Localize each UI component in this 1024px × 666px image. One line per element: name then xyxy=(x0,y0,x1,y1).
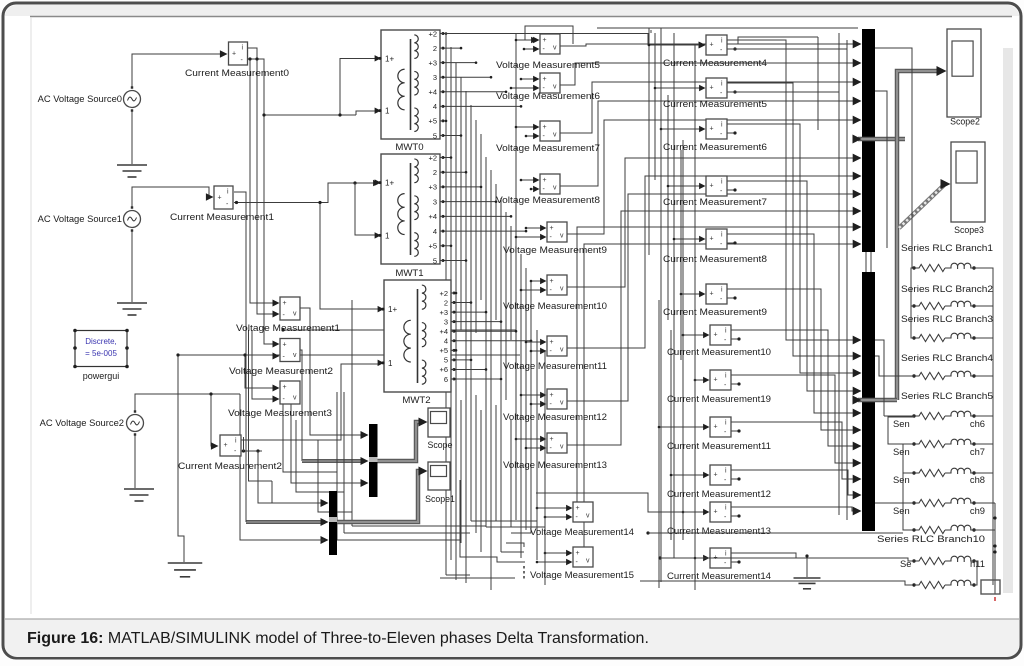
svg-text:Series RLC Branch10: Series RLC Branch10 xyxy=(877,533,985,544)
svg-text:+3: +3 xyxy=(428,183,437,192)
svg-text:Current Measurement5: Current Measurement5 xyxy=(663,98,767,109)
svg-text:3: 3 xyxy=(444,317,448,326)
svg-text:Sen: Sen xyxy=(893,505,910,516)
svg-text:2: 2 xyxy=(433,168,437,177)
svg-text:Voltage Measurement7: Voltage Measurement7 xyxy=(496,142,600,153)
svg-text:+3: +3 xyxy=(428,58,437,67)
svg-text:+: + xyxy=(283,342,287,349)
svg-text:2: 2 xyxy=(433,44,437,53)
svg-text:Current Measurement0: Current Measurement0 xyxy=(185,67,289,78)
svg-text:Voltage Measurement3: Voltage Measurement3 xyxy=(228,407,332,418)
svg-text:+5: +5 xyxy=(428,117,437,126)
svg-text:Current Measurement10: Current Measurement10 xyxy=(667,346,771,357)
svg-text:+: + xyxy=(543,177,547,184)
svg-text:Sen: Sen xyxy=(893,418,910,429)
svg-text:4: 4 xyxy=(433,227,437,236)
svg-text:+: + xyxy=(710,126,714,133)
svg-text:v: v xyxy=(560,233,564,240)
svg-text:Sen: Sen xyxy=(893,446,910,457)
svg-text:+: + xyxy=(218,194,222,201)
svg-text:Voltage Measurement10: Voltage Measurement10 xyxy=(503,300,607,311)
svg-text:Voltage Measurement12: Voltage Measurement12 xyxy=(503,411,607,422)
svg-text:Series RLC Branch4: Series RLC Branch4 xyxy=(901,352,993,363)
svg-text:v: v xyxy=(293,311,297,318)
svg-text:Sen: Sen xyxy=(893,474,910,485)
svg-text:+: + xyxy=(550,278,554,285)
svg-text:6: 6 xyxy=(444,375,448,384)
svg-text:ch9: ch9 xyxy=(970,505,985,516)
svg-text:+: + xyxy=(550,339,554,346)
svg-text:+: + xyxy=(550,225,554,232)
svg-text:Discrete,: Discrete, xyxy=(85,337,117,346)
svg-text:v: v xyxy=(553,185,557,192)
svg-text:+: + xyxy=(710,236,714,243)
svg-text:+: + xyxy=(550,392,554,399)
svg-text:Voltage Measurement5: Voltage Measurement5 xyxy=(496,59,600,70)
svg-text:+4: +4 xyxy=(428,212,437,221)
svg-text:Current Measurement8: Current Measurement8 xyxy=(663,253,767,264)
svg-text:AC Voltage Source2: AC Voltage Source2 xyxy=(40,417,124,428)
svg-text:Current Measurement4: Current Measurement4 xyxy=(663,57,767,68)
svg-text:1: 1 xyxy=(385,231,390,240)
svg-text:AC Voltage Source1: AC Voltage Source1 xyxy=(38,213,122,224)
svg-text:+: + xyxy=(714,377,718,384)
svg-text:+6: +6 xyxy=(439,365,448,374)
svg-text:Voltage Measurement9: Voltage Measurement9 xyxy=(503,244,607,255)
svg-text:Figure 16: MATLAB/SIMULINK mod: Figure 16: MATLAB/SIMULINK model of Thre… xyxy=(27,630,649,647)
svg-text:ch6: ch6 xyxy=(970,418,985,429)
svg-text:+2: +2 xyxy=(428,153,437,162)
svg-text:1+: 1+ xyxy=(385,179,394,188)
svg-text:+: + xyxy=(714,424,718,431)
svg-text:5: 5 xyxy=(444,356,448,365)
svg-text:+: + xyxy=(283,300,287,307)
svg-text:Current Measurement1: Current Measurement1 xyxy=(170,211,274,222)
svg-text:+2: +2 xyxy=(439,289,448,298)
svg-text:4: 4 xyxy=(444,337,448,346)
svg-text:+5: +5 xyxy=(439,346,448,355)
svg-text:Voltage Measurement2: Voltage Measurement2 xyxy=(229,365,333,376)
svg-text:+4: +4 xyxy=(428,88,437,97)
svg-text:Scope2: Scope2 xyxy=(950,117,980,127)
svg-text:ch7: ch7 xyxy=(970,446,985,457)
svg-text:+: + xyxy=(714,509,718,516)
svg-text:1: 1 xyxy=(388,359,393,368)
svg-text:Voltage Measurement1: Voltage Measurement1 xyxy=(236,322,340,333)
svg-text:Current Measurement2: Current Measurement2 xyxy=(178,460,282,471)
svg-text:3: 3 xyxy=(433,73,437,82)
svg-text:Series RLC Branch5: Series RLC Branch5 xyxy=(901,390,993,401)
svg-text:+: + xyxy=(543,76,547,83)
svg-text:Current Measurement7: Current Measurement7 xyxy=(663,196,767,207)
svg-text:Current Measurement14: Current Measurement14 xyxy=(667,570,771,581)
svg-text:1+: 1+ xyxy=(385,54,394,63)
svg-text:+: + xyxy=(710,291,714,298)
svg-text:AC Voltage Source0: AC Voltage Source0 xyxy=(38,93,122,104)
svg-text:= 5e-005: = 5e-005 xyxy=(85,349,117,358)
svg-text:v: v xyxy=(293,352,297,359)
svg-text:Scope: Scope xyxy=(428,440,453,450)
svg-text:1: 1 xyxy=(385,107,390,116)
svg-text:Voltage Measurement13: Voltage Measurement13 xyxy=(503,459,607,470)
svg-text:MWT0: MWT0 xyxy=(395,142,423,153)
svg-text:v: v xyxy=(560,286,564,293)
svg-text:Voltage Measurement6: Voltage Measurement6 xyxy=(496,90,600,101)
svg-text:+: + xyxy=(550,436,554,443)
svg-text:+3: +3 xyxy=(439,308,448,317)
svg-text:Voltage Measurement15: Voltage Measurement15 xyxy=(530,569,634,580)
svg-text:Series RLC Branch1: Series RLC Branch1 xyxy=(901,242,993,253)
svg-text:4: 4 xyxy=(433,102,437,111)
svg-text:MWT2: MWT2 xyxy=(402,395,430,406)
svg-text:Se: Se xyxy=(900,558,911,569)
svg-text:Current Measurement9: Current Measurement9 xyxy=(663,306,767,317)
svg-text:MWT1: MWT1 xyxy=(395,268,423,279)
svg-text:+: + xyxy=(710,85,714,92)
svg-text:powergui: powergui xyxy=(83,371,120,381)
svg-text:+: + xyxy=(283,384,287,391)
svg-text:Current Measurement19: Current Measurement19 xyxy=(667,393,771,404)
svg-text:+: + xyxy=(576,550,580,557)
svg-text:+: + xyxy=(224,442,228,449)
svg-text:Current Measurement6: Current Measurement6 xyxy=(663,141,767,152)
svg-text:v: v xyxy=(553,132,557,139)
svg-text:1+: 1+ xyxy=(388,305,397,314)
svg-text:ch8: ch8 xyxy=(970,474,985,485)
svg-text:v: v xyxy=(293,395,297,402)
svg-text:5: 5 xyxy=(433,131,437,140)
svg-text:v: v xyxy=(560,400,564,407)
svg-text:v: v xyxy=(586,513,590,520)
svg-text:2: 2 xyxy=(444,298,448,307)
svg-text:+: + xyxy=(714,472,718,479)
svg-text:Current Measurement12: Current Measurement12 xyxy=(667,488,771,499)
svg-text:+: + xyxy=(232,50,236,57)
svg-text:v: v xyxy=(560,347,564,354)
svg-text:Current Measurement11: Current Measurement11 xyxy=(667,440,771,451)
svg-text:+: + xyxy=(710,42,714,49)
svg-text:+: + xyxy=(543,37,547,44)
svg-text:Voltage Measurement14: Voltage Measurement14 xyxy=(530,526,634,537)
svg-text:5: 5 xyxy=(433,256,437,265)
svg-text:Current Measurement13: Current Measurement13 xyxy=(667,525,771,536)
svg-text:v: v xyxy=(586,558,590,565)
svg-text:v: v xyxy=(560,444,564,451)
svg-text:Series RLC Branch2: Series RLC Branch2 xyxy=(901,283,993,294)
svg-text:+4: +4 xyxy=(439,327,448,336)
svg-text:Scope3: Scope3 xyxy=(954,225,984,235)
svg-text:+2: +2 xyxy=(428,29,437,38)
svg-text:Scope1: Scope1 xyxy=(425,494,455,504)
svg-text:Series RLC Branch3: Series RLC Branch3 xyxy=(901,313,993,324)
svg-text:h11: h11 xyxy=(970,558,985,569)
svg-text:+: + xyxy=(576,505,580,512)
svg-text:v: v xyxy=(553,45,557,52)
svg-text:Voltage Measurement11: Voltage Measurement11 xyxy=(503,360,607,371)
svg-text:+: + xyxy=(714,332,718,339)
svg-text:+5: +5 xyxy=(428,242,437,251)
svg-text:Voltage Measurement8: Voltage Measurement8 xyxy=(496,194,600,205)
svg-text:3: 3 xyxy=(433,197,437,206)
svg-text:+: + xyxy=(710,183,714,190)
svg-text:+: + xyxy=(543,124,547,131)
